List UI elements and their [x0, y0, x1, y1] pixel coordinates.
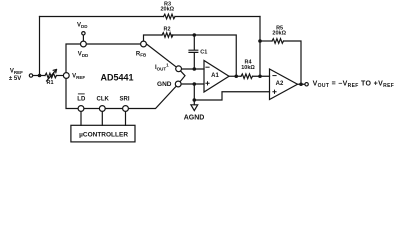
svg-text:20kΩ: 20kΩ: [272, 30, 286, 36]
junction R4 to R3 net: [258, 74, 262, 78]
svg-text:AD5441: AD5441: [100, 72, 133, 82]
pin circle VDD: [81, 41, 87, 47]
svg-text:LD: LD: [77, 96, 86, 102]
svg-text:R1: R1: [46, 80, 53, 86]
svg-text:VOUT = –VREF TO +VREF: VOUT = –VREF TO +VREF: [313, 81, 395, 90]
svg-text:VDD: VDD: [77, 23, 88, 29]
capacitor C1: [193, 35, 195, 50]
pin circle RFB: [141, 41, 147, 47]
junction C1 bottom to IOUT1 net: [193, 67, 197, 71]
pin circle IOUT1: [176, 66, 182, 72]
pin circle LD: [78, 106, 84, 112]
svg-text:VREF: VREF: [72, 74, 85, 80]
svg-text:CLK: CLK: [97, 96, 110, 102]
wire R4 to A2 minus input: [253, 75, 270, 77]
svg-text:20kΩ: 20kΩ: [161, 6, 175, 12]
ground AGND symbol: [191, 105, 198, 111]
wire GND pin to A1 plus input: [181, 83, 204, 85]
svg-text:R2: R2: [163, 27, 170, 33]
wire RFB stub up to R2: [144, 35, 163, 41]
svg-text:RFB: RFB: [136, 51, 147, 57]
terminal VDD supply: [82, 32, 85, 35]
resistor R4: [241, 74, 253, 79]
op-amp A2: [270, 69, 298, 100]
terminal VREF source: [29, 74, 32, 77]
svg-text:GND: GND: [157, 81, 172, 88]
wire VREF input: [33, 75, 45, 77]
wire top R3 net horizontal: [40, 16, 164, 18]
pin circle CLK: [99, 106, 105, 112]
wire R5 branch: [260, 40, 272, 42]
svg-text:AGND: AGND: [184, 115, 205, 122]
microcontroller box: [71, 125, 135, 142]
svg-text:IOUT1: IOUT1: [155, 63, 169, 72]
op-amp A1: [204, 61, 229, 93]
svg-text:± 5V: ± 5V: [9, 76, 21, 82]
junction A1 output to R2 net: [234, 74, 238, 78]
junction R3-R5 node: [258, 39, 262, 43]
svg-text:SRI: SRI: [119, 96, 129, 102]
wire R1 to VREF pin: [57, 75, 64, 77]
pin circle VREF: [63, 73, 69, 79]
resistor R3: [164, 14, 176, 19]
svg-text:VREF: VREF: [10, 69, 23, 75]
wire A2 output: [298, 83, 306, 85]
wire right vertical R3 to R4 node: [259, 17, 261, 77]
pin circle SRI: [123, 106, 129, 112]
AD5441 block outline: [66, 44, 185, 109]
resistor R2: [162, 33, 173, 38]
junction VREF input node: [38, 74, 42, 78]
svg-text:C1: C1: [200, 49, 207, 55]
wire IOUT1 to A1 minus input: [181, 68, 204, 70]
junction AGND node: [193, 98, 197, 102]
wire left vertical: [39, 17, 41, 76]
junction GND net: [193, 82, 197, 86]
svg-text:10kΩ: 10kΩ: [241, 65, 255, 71]
wire VDD stub: [82, 35, 84, 41]
wire GND node down: [193, 84, 195, 100]
svg-text:VDD: VDD: [78, 52, 89, 58]
wire R2 to A1 output vertical: [172, 35, 236, 76]
svg-text:A2: A2: [276, 81, 284, 87]
wire gnd to A2 plus input: [194, 92, 269, 100]
svg-text:µCONTROLLER: µCONTROLLER: [79, 131, 128, 138]
junction C1 top to R2 net: [193, 33, 197, 37]
wire A1 output to R4: [229, 75, 241, 77]
junction VOUT node: [299, 82, 303, 86]
svg-text:A1: A1: [211, 73, 219, 79]
resistor R5: [272, 39, 283, 44]
terminal VOUT: [305, 83, 308, 86]
wire AGND stub: [193, 100, 195, 105]
wire uC stubs: [81, 111, 126, 125]
pin circle GND: [175, 81, 181, 87]
resistor R1 (variable): [45, 73, 56, 78]
